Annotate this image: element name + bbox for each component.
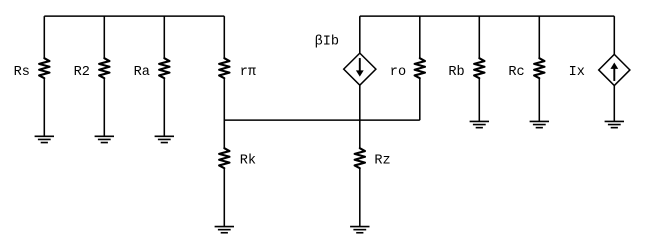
wire R2 bottom lead [103, 78, 105, 136]
wire Rk bottom lead [223, 168, 225, 226]
svg-text:Rk: Rk [240, 153, 256, 168]
wire Ra bottom lead [163, 78, 165, 136]
resistor Rz [355, 148, 365, 168]
wire Rc bottom lead [538, 78, 540, 121]
resistor Rs [39, 58, 49, 78]
svg-text:Rs: Rs [14, 65, 30, 80]
ground Ix [605, 121, 624, 127]
wire ro bottom lead to node B [419, 78, 421, 120]
ground Ra [155, 136, 174, 142]
resistor Rc [534, 58, 544, 78]
wire middle bus node B [224, 119, 419, 121]
resistor Rk [219, 148, 229, 168]
ground R2 [95, 136, 114, 142]
resistor R2 [99, 58, 109, 78]
wire Rc top lead [538, 16, 540, 58]
current source betaIb [344, 53, 376, 85]
wire rpi top lead [223, 16, 225, 58]
svg-text:Rc: Rc [508, 65, 524, 80]
wire Rs bottom lead [43, 78, 45, 136]
wire Rz bottom lead [359, 168, 361, 226]
wire Ix bottom lead [613, 86, 615, 122]
svg-text:rπ: rπ [240, 65, 256, 80]
ground Rc [530, 121, 549, 127]
wire top-left bus [44, 15, 224, 17]
wire betaIb top lead [359, 16, 361, 53]
wire Ix top lead [613, 16, 615, 54]
svg-text:Rz: Rz [374, 154, 390, 169]
wire top-right bus [360, 15, 615, 17]
svg-text:R2: R2 [74, 65, 90, 80]
resistor ro [415, 58, 425, 78]
resistor Rb [474, 58, 484, 78]
ground Rz [350, 227, 369, 233]
wire Rb bottom lead [478, 78, 480, 121]
wire Ra top lead [163, 16, 165, 58]
ground Rs [35, 136, 54, 142]
ground Rk [215, 227, 234, 233]
wire betaIb bottom lead to node B [359, 85, 361, 148]
svg-text:βIb: βIb [315, 34, 339, 49]
svg-text:Ra: Ra [134, 65, 150, 80]
svg-text:ro: ro [390, 65, 406, 80]
wire Rb top lead [478, 16, 480, 58]
svg-text:Ix: Ix [569, 65, 585, 80]
current source Ix [599, 54, 630, 85]
ground Rb [470, 121, 489, 127]
resistor rpi [219, 58, 229, 78]
resistor Ra [159, 58, 169, 78]
svg-text:Rb: Rb [448, 65, 464, 80]
wire rpi bottom lead to node B [223, 78, 225, 148]
wire R2 top lead [103, 16, 105, 58]
wire Rs top lead [43, 16, 45, 58]
wire ro top lead [419, 16, 421, 58]
